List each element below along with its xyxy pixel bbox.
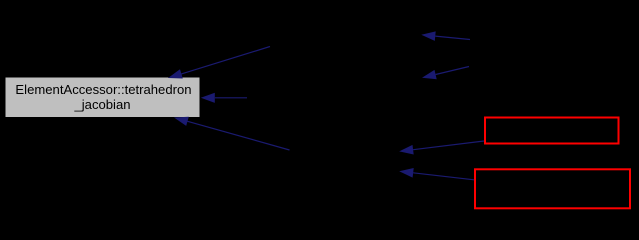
svg-text:ElementAccessor::tetrahedron: ElementAccessor::tetrahedron bbox=[15, 82, 191, 97]
svg-text:_jacobian: _jacobian bbox=[73, 97, 130, 112]
